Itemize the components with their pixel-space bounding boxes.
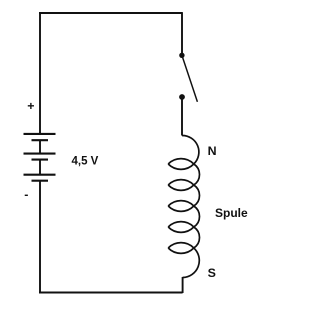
switch S1 lever (182, 55, 198, 102)
coil exit arc (183, 248, 200, 278)
coil loop 2 (168, 180, 194, 191)
svg-text:+: + (27, 99, 34, 113)
coil connector 3-4 (194, 206, 200, 227)
coil connector 2-3 (194, 185, 200, 206)
battery cell2 long plate (24, 153, 56, 155)
wire left between cell2 and cell3 (39, 160, 41, 175)
coil loop 3 (168, 201, 194, 212)
svg-text:Spule: Spule (215, 206, 248, 220)
svg-text:S: S (208, 266, 216, 280)
wire right upper (to switch) (181, 12, 183, 55)
wire bottom (39, 292, 183, 294)
wire left upper (39, 12, 41, 134)
svg-text:N: N (208, 144, 217, 158)
wire coil bottom vertical (182, 277, 184, 293)
svg-text:4,5 V: 4,5 V (72, 156, 99, 168)
battery cell1 long plate (24, 133, 56, 135)
coil connector 1-2 (194, 164, 200, 185)
battery B1 4,5 V (24, 134, 56, 181)
coil loop 1 (168, 159, 194, 170)
wire left between cell1 and cell2 (39, 140, 41, 153)
coil connector 4-5 (194, 227, 200, 248)
coil loop 5 (168, 243, 194, 254)
svg-text:-: - (24, 187, 28, 201)
battery cell3 long plate (24, 174, 56, 176)
wire switch to coil (181, 98, 183, 136)
battery cell3 short plate (32, 180, 49, 182)
battery cell2 short plate (32, 159, 49, 161)
inductor L1 (Spule) winding (168, 135, 199, 277)
coil loop 4 (168, 222, 194, 233)
battery cell1 short plate (32, 139, 49, 141)
switch S1 bottom contact node (179, 94, 185, 100)
wire left lower (39, 181, 41, 293)
coil entry arc (182, 135, 199, 164)
wire top (39, 12, 182, 14)
switch S1 top contact node (179, 53, 184, 58)
